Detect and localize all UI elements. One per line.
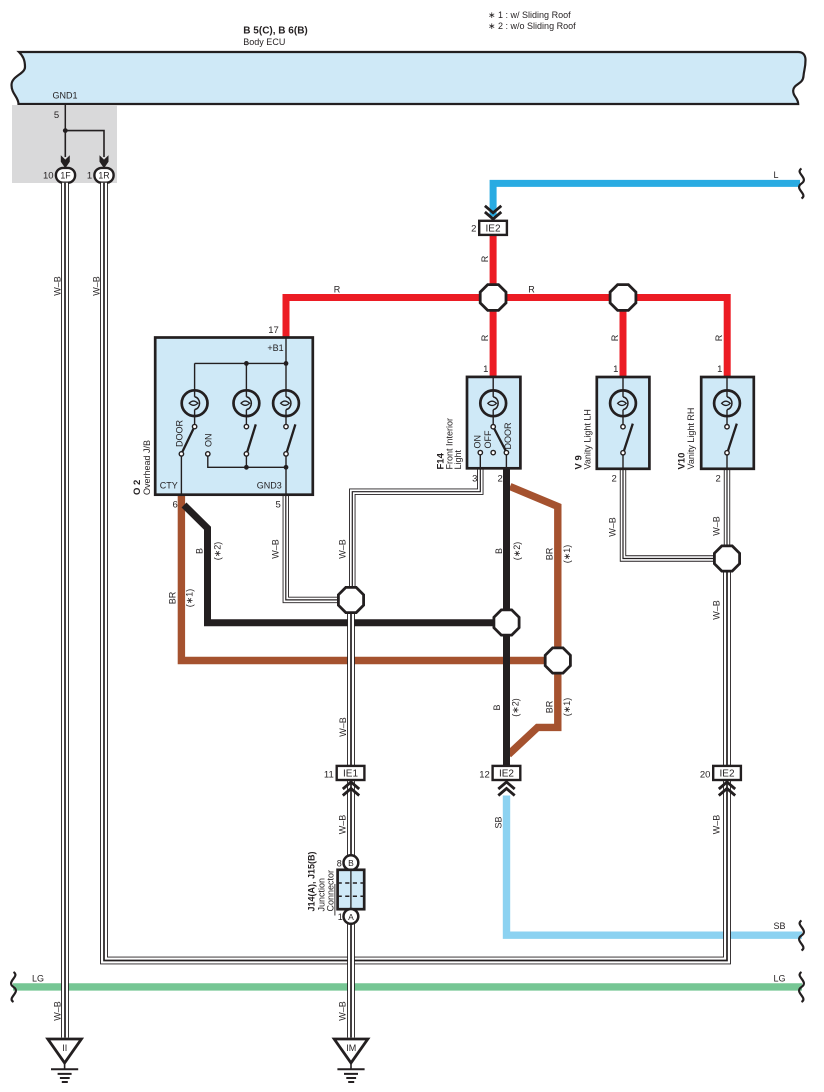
break symbol LG right bbox=[799, 972, 804, 1002]
svg-text:B 5(C), B 6(B): B 5(C), B 6(B) bbox=[243, 26, 307, 37]
svg-text:BR: BR bbox=[545, 700, 555, 713]
wire LG horizontal bottom bbox=[13, 983, 802, 990]
svg-text:1: 1 bbox=[717, 364, 722, 375]
svg-text:IE2: IE2 bbox=[499, 769, 514, 780]
node red junction 1 bbox=[480, 285, 506, 311]
wire lamp1 to contact bbox=[194, 416, 196, 424]
svg-text:3: 3 bbox=[472, 473, 477, 484]
wire internal bus bottom GND3 bbox=[208, 456, 286, 494]
svg-text:1: 1 bbox=[483, 364, 488, 375]
switch V10 contact upper bbox=[725, 425, 729, 429]
switch DOOR blade bbox=[182, 429, 193, 452]
svg-text:IE2: IE2 bbox=[720, 769, 735, 780]
svg-text:W–B: W–B bbox=[270, 539, 280, 559]
arrow chevrons IE2 bbox=[498, 782, 514, 789]
switch 2 blade bbox=[247, 424, 256, 451]
junction connector body bbox=[338, 870, 365, 909]
svg-text:R: R bbox=[480, 334, 490, 341]
wire ON to pin 3 bbox=[479, 455, 481, 468]
svg-text:W–B: W–B bbox=[338, 815, 348, 835]
svg-text:W–B: W–B bbox=[607, 517, 617, 537]
lamp unit V9 Vanity Light LH bbox=[597, 377, 650, 469]
svg-text:∗ 1 : w/ Sliding Roof: ∗ 1 : w/ Sliding Roof bbox=[488, 10, 571, 20]
svg-text:11: 11 bbox=[324, 770, 334, 781]
wire R red main: J/B +B1 up, across, down to V10 bbox=[286, 298, 727, 378]
lamp V10 bbox=[714, 390, 740, 416]
lamp V9 bbox=[610, 390, 636, 416]
node red junction 2 bbox=[610, 285, 636, 311]
contact ON bbox=[478, 450, 482, 454]
svg-text:LG: LG bbox=[773, 974, 785, 984]
ground II bbox=[48, 1039, 82, 1063]
svg-text:BR: BR bbox=[545, 547, 555, 560]
svg-text:(∗2): (∗2) bbox=[511, 698, 521, 717]
switch V9 contact upper bbox=[621, 425, 625, 429]
svg-text:IE2: IE2 bbox=[486, 224, 501, 235]
switch V10 blade bbox=[728, 424, 737, 451]
wire SB from IE2 to right edge bbox=[507, 796, 803, 936]
svg-text:∗ 2 : w/o Sliding Roof: ∗ 2 : w/o Sliding Roof bbox=[488, 21, 576, 31]
node BR brown junction bbox=[545, 648, 570, 673]
wire GND1 pin 5 bbox=[64, 104, 66, 131]
break symbol L wire right bbox=[799, 169, 804, 199]
svg-text:W–B: W–B bbox=[338, 1001, 348, 1021]
switch V9 blade bbox=[624, 424, 633, 451]
lamp F14 bbox=[480, 390, 506, 416]
svg-text:Body ECU: Body ECU bbox=[243, 37, 285, 47]
switch DOOR contact upper bbox=[192, 424, 196, 428]
contact OFF bbox=[491, 450, 495, 454]
svg-text:5: 5 bbox=[276, 500, 281, 511]
svg-text:Overhead J/B: Overhead J/B bbox=[142, 440, 152, 495]
svg-text:L: L bbox=[773, 170, 778, 180]
svg-text:GND1: GND1 bbox=[53, 91, 78, 101]
svg-text:1: 1 bbox=[87, 171, 92, 182]
svg-text:2: 2 bbox=[612, 474, 617, 485]
splice box (shielding area) bbox=[12, 105, 117, 183]
svg-text:W–B: W–B bbox=[338, 717, 348, 737]
junction block O2 Overhead J/B bbox=[155, 338, 313, 495]
arrow chevrons IE2 right bbox=[719, 782, 735, 789]
svg-text:12: 12 bbox=[479, 770, 490, 781]
connector IE2 pin 20 bbox=[713, 766, 741, 780]
svg-text:2: 2 bbox=[716, 474, 721, 485]
svg-text:DOOR: DOOR bbox=[174, 419, 184, 447]
svg-text:OFF: OFF bbox=[483, 430, 493, 448]
svg-text:CTY: CTY bbox=[160, 480, 178, 490]
switch V10 contact lower bbox=[725, 451, 729, 455]
wire +B1 internal feed bbox=[285, 338, 287, 391]
svg-text:SB: SB bbox=[773, 921, 785, 931]
wire B black from CTY pin 6 bbox=[184, 505, 496, 623]
wire W-B node to IE1, junction connector, ground IM bbox=[347, 611, 355, 1038]
junction dot node bbox=[63, 128, 68, 133]
svg-text:(∗1): (∗1) bbox=[185, 589, 195, 608]
svg-text:17: 17 bbox=[268, 325, 279, 336]
wire W-B from GND3 pin 5 to node bbox=[286, 494, 339, 600]
svg-text:B: B bbox=[348, 858, 354, 868]
svg-text:J14(A), J15(B): J14(A), J15(B) bbox=[307, 851, 317, 911]
svg-text:W–B: W–B bbox=[337, 539, 347, 559]
svg-text:1F: 1F bbox=[60, 171, 71, 181]
junction dots bus bbox=[244, 361, 249, 366]
switch V9 contact lower bbox=[621, 451, 625, 455]
node B black junction bbox=[494, 610, 519, 635]
switch 2 contact lower bbox=[244, 452, 248, 456]
svg-text:W–B: W–B bbox=[711, 516, 721, 536]
lamp O2 3 bbox=[273, 390, 299, 416]
lamp unit F14 Front Interior Light bbox=[467, 377, 520, 468]
svg-text:A: A bbox=[348, 912, 354, 922]
svg-text:(∗2): (∗2) bbox=[512, 542, 522, 561]
svg-text:ON: ON bbox=[472, 435, 482, 449]
wire W-B V9 pin 2 to vanity node bbox=[623, 468, 715, 559]
svg-text:B: B bbox=[492, 704, 502, 710]
svg-text:ON: ON bbox=[204, 434, 214, 448]
wire BR brown node to IE2 merge bbox=[509, 672, 558, 755]
svg-text:W–B: W–B bbox=[53, 276, 63, 296]
switch ON contact bbox=[206, 452, 210, 456]
svg-text:1: 1 bbox=[613, 364, 618, 375]
svg-text:5: 5 bbox=[54, 110, 59, 121]
svg-text:W–B: W–B bbox=[711, 600, 721, 620]
svg-text:Vanity Light LH: Vanity Light LH bbox=[583, 409, 593, 469]
arrow into 1R bbox=[100, 155, 109, 168]
svg-text:Light: Light bbox=[453, 449, 463, 469]
arrow chevrons into IE2 top bbox=[485, 206, 501, 213]
connector IE2 pin 12 bbox=[493, 766, 521, 780]
switch F14 pivot contact bbox=[491, 425, 495, 429]
lamp O2 2 bbox=[234, 390, 260, 416]
wire R red IE2 to node bbox=[490, 235, 497, 301]
svg-text:1R: 1R bbox=[98, 171, 109, 181]
break symbol LG left bbox=[11, 972, 16, 1002]
ground II hatching bbox=[64, 1063, 66, 1069]
connector 1R pin 1 bbox=[94, 168, 113, 183]
switch 3 contact upper bbox=[284, 424, 288, 428]
wire B black F14 pin 2 to IE2 bbox=[503, 468, 510, 767]
arrow into 1F bbox=[61, 155, 70, 168]
svg-text:W–B: W–B bbox=[92, 276, 102, 296]
node W-B vanity junction bbox=[714, 546, 739, 571]
connector IE1 pin 11 bbox=[337, 766, 365, 780]
svg-text:BR: BR bbox=[168, 591, 178, 604]
wire CTY exit pin 6 bbox=[180, 456, 182, 494]
svg-text:B: B bbox=[494, 548, 504, 554]
svg-text:+B1: +B1 bbox=[267, 343, 283, 353]
wire BR brown from CTY pin 6 bbox=[181, 494, 546, 661]
svg-text:R: R bbox=[714, 334, 724, 341]
wire R red node to V9 bbox=[620, 298, 627, 378]
wire W-B V10 pin 2 to vanity node bbox=[724, 468, 730, 548]
switch F14 blade to DOOR bbox=[494, 429, 505, 450]
svg-text:8: 8 bbox=[337, 858, 342, 868]
connector 1F pin 10 bbox=[56, 168, 75, 183]
switch 3 contact lower bbox=[284, 452, 288, 456]
lamp O2 courtesy 1 bbox=[182, 390, 208, 416]
svg-text:R: R bbox=[480, 255, 490, 262]
svg-text:R: R bbox=[528, 285, 535, 295]
Body ECU connector band bbox=[12, 52, 806, 104]
svg-text:B: B bbox=[195, 548, 205, 554]
svg-text:10: 10 bbox=[43, 171, 54, 182]
svg-text:(∗1): (∗1) bbox=[562, 545, 572, 564]
svg-text:20: 20 bbox=[700, 770, 711, 781]
switch DOOR contact lower CTY bbox=[179, 452, 183, 456]
svg-text:IM: IM bbox=[346, 1043, 356, 1053]
ground IM hatching bbox=[350, 1063, 352, 1069]
svg-text:IE1: IE1 bbox=[343, 769, 358, 780]
arrow chevrons IE1 bbox=[343, 782, 359, 789]
junction connector terminal A bbox=[344, 909, 359, 924]
svg-text:2: 2 bbox=[471, 224, 476, 235]
wire W-B from 1R across bottom up to vanity node bbox=[104, 183, 727, 961]
node W-B junction bbox=[338, 587, 363, 612]
junction connector J14(A) J15(B) terminal B bbox=[344, 855, 359, 870]
svg-text:R: R bbox=[334, 285, 341, 295]
ground IM bbox=[334, 1039, 368, 1063]
svg-text:6: 6 bbox=[173, 500, 178, 511]
svg-text:LG: LG bbox=[32, 974, 44, 984]
svg-text:(∗2): (∗2) bbox=[213, 542, 223, 561]
wire BR brown branch from F14 pin 2 bbox=[510, 487, 558, 650]
wire R red node to F14 bbox=[490, 298, 497, 378]
contact DOOR bbox=[504, 450, 508, 454]
wire branch to 1R bbox=[65, 131, 104, 157]
svg-text:Vanity Light RH: Vanity Light RH bbox=[686, 408, 696, 470]
wire L blue from right edge to IE2 top bbox=[493, 183, 800, 216]
svg-text:2: 2 bbox=[498, 473, 503, 484]
svg-text:II: II bbox=[62, 1043, 67, 1053]
wire DOOR to pin 2 bbox=[505, 455, 507, 468]
switch 2 contact upper bbox=[244, 424, 248, 428]
svg-text:Connector: Connector bbox=[326, 870, 336, 912]
wire W-B from 1F to ground II bbox=[61, 183, 69, 1038]
wire down to 1F bbox=[64, 131, 66, 157]
connector IE2 pin 2 top bbox=[479, 221, 507, 235]
svg-text:DOOR: DOOR bbox=[503, 422, 513, 450]
svg-text:W–B: W–B bbox=[53, 1001, 63, 1021]
svg-text:1: 1 bbox=[338, 912, 343, 922]
svg-text:W–B: W–B bbox=[711, 815, 721, 835]
lamp unit V10 Vanity Light RH bbox=[701, 377, 754, 469]
svg-text:GND3: GND3 bbox=[257, 480, 282, 490]
svg-text:(∗1): (∗1) bbox=[562, 698, 572, 717]
break symbol SB right bbox=[799, 921, 804, 951]
switch 3 blade bbox=[287, 424, 296, 451]
wire internal bus top bbox=[195, 363, 286, 390]
svg-text:R: R bbox=[610, 334, 620, 341]
svg-text:SB: SB bbox=[494, 816, 504, 828]
wire W-B from F14 pin 3 to node bbox=[352, 468, 480, 589]
